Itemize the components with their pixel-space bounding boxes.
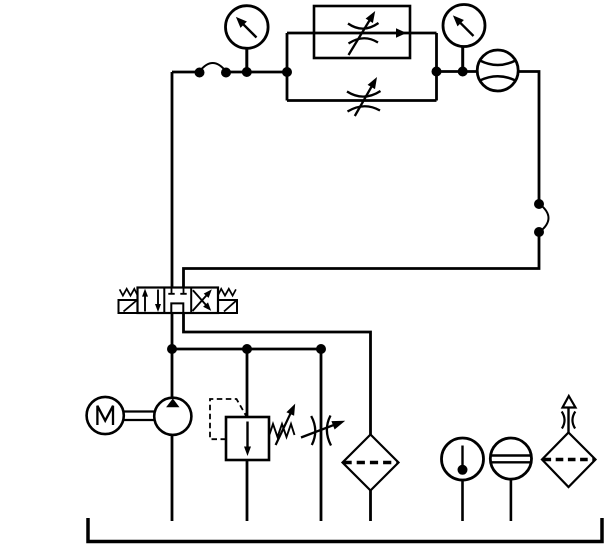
pressure gauge G1	[226, 6, 269, 72]
variable throttle V3	[301, 416, 345, 446]
wire network right vertical	[435, 33, 438, 101]
wire upper branch through box	[287, 32, 437, 35]
flow meter FM1	[477, 50, 518, 91]
motor M1	[87, 397, 124, 434]
wire filter to tank	[369, 491, 372, 522]
node network right junction	[432, 67, 442, 77]
wire coupling to network junction	[226, 71, 287, 74]
wire top-left horizontal to coupling	[172, 71, 200, 74]
node gauge G1 stem junction	[242, 67, 252, 77]
node network left junction	[282, 67, 292, 77]
wire junction row	[172, 348, 321, 351]
node junction row P	[167, 344, 177, 354]
wire network left vertical	[286, 33, 289, 101]
breather B1	[542, 396, 596, 487]
wire supply line A: from top line down to valve port A	[171, 72, 174, 288]
wire relief valve drop	[246, 349, 249, 417]
thermometer TG1	[442, 438, 484, 521]
wire pump suction to tank	[171, 435, 174, 521]
node junction row relief	[242, 344, 252, 354]
flow control valve V1 (boxed, with flow arrow)	[314, 6, 410, 58]
quick coupling K1	[195, 63, 232, 78]
pump P1	[154, 398, 191, 435]
pressure gauge G2	[443, 5, 485, 72]
wire relief to tank	[246, 460, 249, 521]
wire P line valve to junction row to pump	[171, 313, 174, 398]
wire lower branch	[287, 99, 437, 102]
wire throttle branch to tank	[320, 349, 323, 521]
shaft motor-pump	[124, 412, 155, 421]
wire return line B: down, left, into valve port B	[184, 232, 540, 288]
level gauge LG1	[490, 438, 531, 521]
quick coupling K2	[534, 199, 549, 237]
variable throttle V2 on lower branch	[347, 77, 381, 116]
directional valve DV1 4/3 solenoid	[119, 288, 238, 314]
node junction row throttle	[316, 344, 326, 354]
wire T line valve to filter	[184, 313, 371, 435]
wire flow meter to right corner and down	[518, 72, 539, 205]
filter F1	[343, 435, 399, 491]
relief valve RV1	[210, 399, 295, 460]
wire junction to flow meter	[437, 70, 478, 73]
tank T1 reservoir	[88, 518, 602, 542]
node gauge G2 stem junction	[458, 67, 468, 77]
